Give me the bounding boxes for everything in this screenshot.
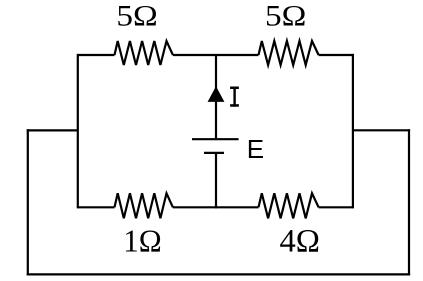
svg-text:5Ω: 5Ω <box>265 0 306 32</box>
wire top-left (node A to R1) <box>78 54 115 56</box>
resistor R1 5Ω (top left) <box>115 41 173 65</box>
resistor R3 1Ω (bottom left) <box>115 193 173 218</box>
wire top-right (R2 to node C) <box>319 54 353 56</box>
wire outer branch right <box>353 129 410 131</box>
battery E positive plate (long) <box>192 138 239 140</box>
wire left vertical (node A down) <box>77 54 79 209</box>
resistor R2 5Ω (top right) <box>259 41 319 65</box>
wire outer right vertical <box>408 129 410 275</box>
svg-text:E: E <box>247 134 264 164</box>
wire bottom-middle (R3 to node E2) <box>173 206 259 208</box>
wire right vertical (node C down) <box>352 54 354 209</box>
resistor R4 4Ω (bottom right) <box>259 193 319 218</box>
svg-text:1Ω: 1Ω <box>123 223 161 258</box>
current arrow I (pointing up on middle branch) <box>208 86 225 102</box>
svg-text:4Ω: 4Ω <box>280 224 320 260</box>
wire top-middle (R1 to node B) <box>173 54 259 56</box>
wire outer branch left <box>27 129 78 131</box>
wire middle branch upper (node B to battery) <box>215 55 217 139</box>
battery E negative plate (short) <box>204 152 224 154</box>
wire bottom-right (R4 to node F) <box>319 206 353 208</box>
svg-text:5Ω: 5Ω <box>116 0 157 32</box>
wire middle branch lower (battery to bottom node) <box>215 153 217 209</box>
label I (current) <box>230 87 239 107</box>
wire outer left vertical <box>27 129 29 275</box>
wire outer bottom <box>27 273 410 275</box>
wire bottom-left (node D to R3) <box>78 206 115 208</box>
